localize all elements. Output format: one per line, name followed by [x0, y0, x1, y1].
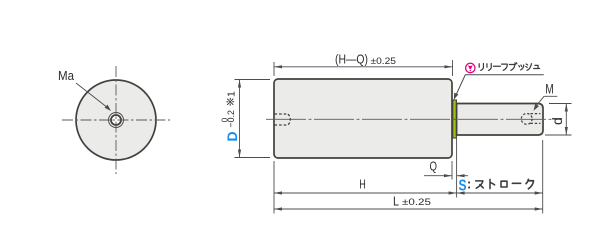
- centerline vertical (end view): [115, 66, 117, 174]
- hidden tapped hole M: dashed depth lines: [531, 114, 541, 124]
- arrowhead Q (points right at 452): [444, 174, 452, 177]
- dimension line S: [457, 192, 543, 194]
- svg-text:Q: Q: [430, 159, 438, 174]
- dimension line Q (right part, arrow outside): [457, 175, 468, 177]
- svg-text:Ma: Ma: [58, 68, 75, 83]
- arrowhead right (S): [535, 191, 543, 194]
- dimension text D with tolerance (rotated): [220, 91, 240, 142]
- tapped hole Ma: outer thread circle: [109, 113, 124, 128]
- dimension line L: [274, 208, 543, 210]
- arrowhead top (D): [238, 80, 241, 88]
- extension line right (S/L, below shaft end): [542, 140, 544, 214]
- extension line top (d): [549, 103, 572, 105]
- callout icon glyph: [468, 65, 473, 69]
- arrowhead right (H-Q): [445, 65, 453, 68]
- body (large cylinder side view): [274, 79, 452, 158]
- arrowhead bottom (d): [565, 127, 568, 135]
- dimension line Q (left part, arrow outside): [424, 175, 452, 177]
- extension line left (H/L, from body bottom): [273, 161, 275, 214]
- arrowhead Q (points left at 456.6): [457, 174, 465, 177]
- extension line Q right / S left (long): [456, 138, 458, 198]
- end view body circle: [76, 80, 156, 160]
- relief bush (green strip): [453, 100, 457, 138]
- arrowhead left (H): [274, 191, 282, 194]
- callout icon circle (pink): [466, 63, 475, 72]
- svg-text:H: H: [359, 177, 366, 192]
- svg-text:M: M: [545, 81, 554, 97]
- leader M arrowhead: [534, 104, 539, 111]
- arrowhead top (d): [565, 104, 568, 112]
- leader M: horizontal landing + diagonal: [536, 96, 557, 106]
- dimension line H: [274, 192, 457, 194]
- callout text リリーフブッシュ (hand-drawn kana): [479, 63, 539, 71]
- extension line Q left (from body bottom): [451, 161, 453, 180]
- svg-text:±0.25: ±0.25: [402, 197, 431, 208]
- extension line top (D): [235, 79, 271, 81]
- centerline (side view axis): [266, 118, 562, 120]
- svg-text:L: L: [393, 193, 399, 208]
- extension line bottom (d): [545, 134, 572, 136]
- extension line right (H-Q): [452, 60, 454, 76]
- centerline horizontal (end view): [62, 119, 170, 121]
- svg-text:±0.25: ±0.25: [371, 56, 397, 67]
- leader line Ma: [76, 83, 108, 108]
- svg-text:1: 1: [226, 91, 238, 97]
- svg-text:S: S: [459, 177, 467, 194]
- tapped hole Ma: inner circle: [111, 115, 121, 125]
- label ：ストローク (hand-drawn kana): [468, 182, 470, 189]
- hidden tapped hole M (side view, right end): dashed circle: [521, 114, 532, 125]
- arrowhead bottom (D): [238, 150, 241, 158]
- extension line left (H-Q): [273, 62, 275, 76]
- shaft (small cylinder side view): [457, 104, 543, 136]
- arrowhead right (L): [535, 207, 543, 210]
- arrowhead left (L): [274, 207, 282, 210]
- arrowhead right (H): [449, 191, 457, 194]
- callout leader arrowhead: [454, 93, 459, 100]
- arrowhead left (H-Q): [274, 65, 282, 68]
- hidden tapped hole Ma (side view, left end): [275, 114, 291, 125]
- svg-text:0: 0: [220, 117, 229, 122]
- arrowhead left (S): [457, 191, 465, 194]
- leader arrowhead Ma: [105, 105, 112, 111]
- dimension line d: [565, 104, 567, 136]
- dimension line D: [239, 80, 241, 158]
- svg-text:d: d: [549, 117, 565, 125]
- callout leader: horizontal + diagonal to strip: [455, 75, 544, 97]
- extension line bottom (D): [235, 157, 271, 159]
- svg-text:(H—Q): (H—Q): [335, 52, 368, 67]
- dimension line (H-Q): [274, 66, 453, 68]
- svg-text:D: D: [224, 131, 240, 141]
